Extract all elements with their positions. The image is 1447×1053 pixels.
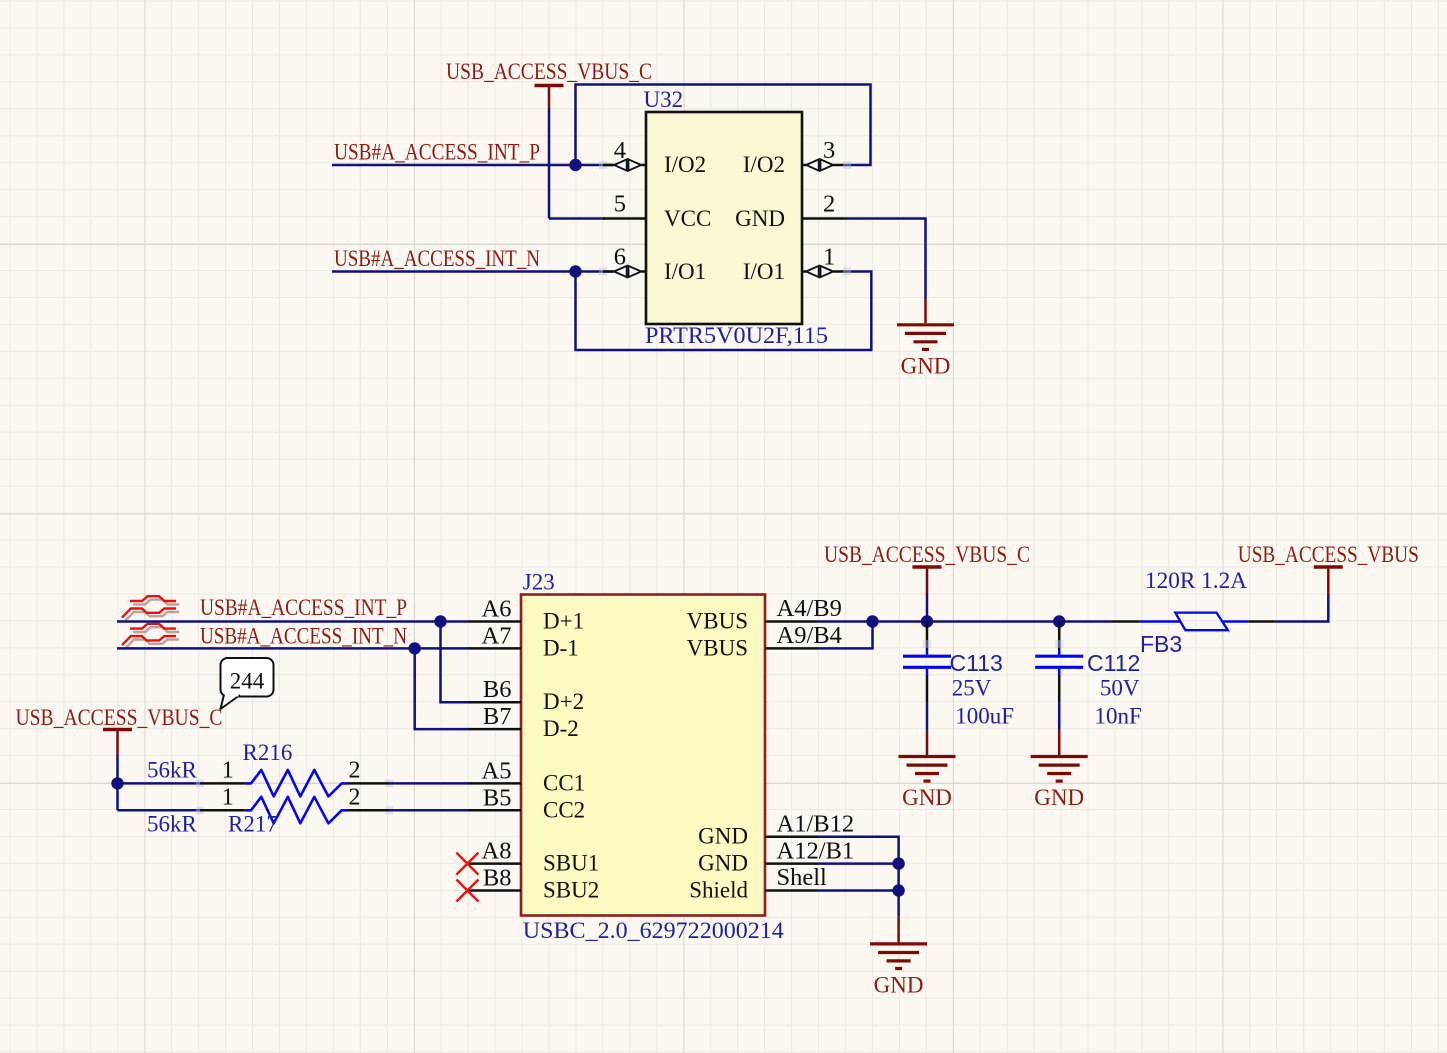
svg-text:D+1: D+1 bbox=[543, 609, 584, 634]
svg-text:D+2: D+2 bbox=[543, 689, 584, 714]
svg-text:D-2: D-2 bbox=[543, 716, 579, 741]
svg-text:J23: J23 bbox=[523, 570, 555, 595]
svg-text:GND: GND bbox=[874, 972, 924, 997]
svg-text:56kR: 56kR bbox=[147, 758, 198, 783]
svg-text:2: 2 bbox=[349, 784, 361, 810]
svg-text:I/O1: I/O1 bbox=[664, 259, 706, 284]
svg-text:C113: C113 bbox=[950, 650, 1003, 676]
svg-text:USB#A_ACCESS_INT_P: USB#A_ACCESS_INT_P bbox=[334, 140, 540, 165]
svg-text:CC2: CC2 bbox=[543, 797, 585, 822]
svg-text:B8: B8 bbox=[483, 865, 512, 892]
svg-text:GND: GND bbox=[902, 785, 952, 810]
svg-text:USB_ACCESS_VBUS_C: USB_ACCESS_VBUS_C bbox=[824, 542, 1030, 567]
svg-text:A7: A7 bbox=[482, 622, 512, 649]
svg-text:B6: B6 bbox=[483, 676, 512, 703]
svg-text:R216: R216 bbox=[243, 740, 293, 765]
svg-text:I/O2: I/O2 bbox=[664, 152, 706, 177]
svg-text:5: 5 bbox=[614, 191, 626, 218]
svg-text:R217: R217 bbox=[228, 812, 278, 837]
svg-text:VBUS: VBUS bbox=[687, 635, 748, 660]
svg-text:100uF: 100uF bbox=[955, 704, 1014, 729]
svg-text:2: 2 bbox=[823, 191, 835, 218]
svg-text:USBC_2.0_629722000214: USBC_2.0_629722000214 bbox=[523, 918, 785, 943]
svg-text:1: 1 bbox=[222, 758, 234, 784]
svg-text:3: 3 bbox=[823, 137, 835, 164]
svg-text:25V: 25V bbox=[952, 676, 992, 701]
svg-text:USB#A_ACCESS_INT_P: USB#A_ACCESS_INT_P bbox=[200, 595, 407, 620]
svg-text:GND: GND bbox=[735, 206, 785, 231]
svg-text:C112: C112 bbox=[1087, 650, 1140, 676]
svg-text:FB3: FB3 bbox=[1140, 631, 1182, 657]
svg-text:A6: A6 bbox=[482, 596, 512, 623]
svg-text:A12/B1: A12/B1 bbox=[777, 837, 855, 864]
svg-text:USB#A_ACCESS_INT_N: USB#A_ACCESS_INT_N bbox=[200, 624, 407, 649]
svg-text:56kR: 56kR bbox=[147, 812, 198, 837]
svg-text:244: 244 bbox=[230, 669, 265, 694]
svg-text:1: 1 bbox=[823, 244, 835, 271]
svg-text:GND: GND bbox=[1034, 785, 1084, 810]
svg-text:VBUS: VBUS bbox=[687, 609, 748, 634]
svg-text:USB_ACCESS_VBUS: USB_ACCESS_VBUS bbox=[1238, 542, 1419, 567]
svg-text:GND: GND bbox=[698, 824, 748, 849]
svg-text:GND: GND bbox=[698, 851, 748, 876]
svg-text:SBU2: SBU2 bbox=[543, 878, 599, 903]
svg-text:1: 1 bbox=[222, 784, 234, 810]
svg-text:4: 4 bbox=[614, 137, 626, 164]
svg-text:10nF: 10nF bbox=[1095, 704, 1142, 729]
svg-text:A5: A5 bbox=[482, 757, 512, 784]
svg-text:GND: GND bbox=[901, 353, 951, 378]
svg-text:2: 2 bbox=[349, 758, 361, 784]
svg-text:A8: A8 bbox=[482, 838, 512, 865]
svg-text:SBU1: SBU1 bbox=[543, 851, 599, 876]
svg-text:B5: B5 bbox=[483, 784, 512, 811]
svg-text:USB_ACCESS_VBUS_C: USB_ACCESS_VBUS_C bbox=[16, 705, 223, 730]
svg-text:USB_ACCESS_VBUS_C: USB_ACCESS_VBUS_C bbox=[446, 59, 652, 84]
svg-text:Shield: Shield bbox=[689, 878, 748, 903]
svg-text:D-1: D-1 bbox=[543, 635, 579, 660]
svg-text:I/O2: I/O2 bbox=[743, 152, 785, 177]
svg-text:USB#A_ACCESS_INT_N: USB#A_ACCESS_INT_N bbox=[334, 246, 540, 271]
svg-text:B7: B7 bbox=[483, 703, 512, 730]
svg-text:U32: U32 bbox=[644, 87, 684, 112]
svg-text:CC1: CC1 bbox=[543, 770, 585, 795]
svg-text:120R 1.2A: 120R 1.2A bbox=[1145, 568, 1247, 593]
svg-text:A4/B9: A4/B9 bbox=[777, 595, 842, 622]
svg-text:6: 6 bbox=[614, 244, 626, 271]
svg-text:I/O1: I/O1 bbox=[743, 259, 785, 284]
svg-text:Shell: Shell bbox=[777, 864, 828, 891]
svg-text:VCC: VCC bbox=[664, 206, 711, 231]
svg-text:PRTR5V0U2F,115: PRTR5V0U2F,115 bbox=[645, 323, 828, 348]
svg-text:50V: 50V bbox=[1100, 676, 1140, 701]
svg-text:A1/B12: A1/B12 bbox=[777, 810, 855, 837]
svg-text:A9/B4: A9/B4 bbox=[777, 622, 842, 649]
